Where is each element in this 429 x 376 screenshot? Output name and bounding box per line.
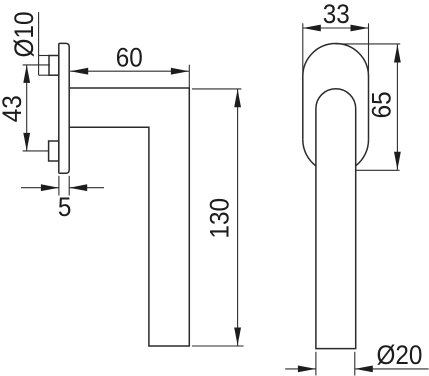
dim 5 line right bbox=[69, 187, 104, 189]
dim 5 arrow left bbox=[41, 184, 59, 191]
dim 43 arrow up bbox=[23, 65, 30, 83]
dim Ø20 arrow right bbox=[355, 366, 373, 373]
dim 33 arrow right bbox=[351, 25, 369, 32]
dim 33 extension right bbox=[368, 23, 370, 76]
dim 33 extension left bbox=[302, 23, 304, 76]
svg-text:43: 43 bbox=[0, 95, 27, 122]
dim 43 arrow down bbox=[23, 133, 30, 151]
svg-text:Ø20: Ø20 bbox=[376, 341, 422, 370]
dim 130 extension top bbox=[192, 88, 241, 90]
handle lever (side view L-shape) bbox=[69, 88, 189, 346]
dim 65 line bbox=[396, 45, 398, 170]
dim 65 arrow down bbox=[394, 152, 401, 170]
dim Ø20 line right bbox=[355, 368, 429, 370]
dim Ø20 arrow left bbox=[298, 366, 316, 373]
rosette oval bottom-right arc bbox=[356, 140, 369, 166]
left view: rosette plate (side) bbox=[59, 43, 69, 173]
dim 60 extension right bbox=[188, 65, 190, 88]
dim 43 line bbox=[26, 65, 28, 151]
dim Ø20 extension right bbox=[354, 352, 356, 376]
right view: rosette oval (front) sides and top arc bbox=[303, 44, 369, 140]
dim 130 arrow up bbox=[234, 89, 241, 107]
svg-text:60: 60 bbox=[116, 43, 143, 72]
dim 60 line bbox=[70, 70, 189, 72]
rosette oval bottom-left arc bbox=[303, 140, 316, 166]
dim 33 arrow left bbox=[303, 25, 321, 32]
svg-text:65: 65 bbox=[367, 91, 396, 118]
dim 65 extension bottom bbox=[356, 169, 400, 171]
dim 43 extension bottom (peg center) bbox=[23, 150, 49, 152]
svg-text:130: 130 bbox=[205, 198, 234, 239]
dim 65 extension top bbox=[336, 43, 401, 45]
dim 130 line bbox=[237, 89, 239, 345]
dim 65 arrow up bbox=[394, 45, 401, 63]
svg-text:Ø10: Ø10 bbox=[10, 12, 39, 58]
dim 130 extension bottom bbox=[192, 345, 244, 347]
bottom screw peg bbox=[49, 141, 59, 161]
dim 60 arrow left bbox=[70, 68, 88, 75]
svg-text:5: 5 bbox=[58, 193, 72, 222]
dim 60 arrow right bbox=[171, 68, 189, 75]
dim Ø10 leader line bbox=[38, 12, 40, 75]
top screw peg bbox=[49, 56, 59, 76]
dim Ø10 tick top bbox=[39, 55, 50, 57]
dim Ø20 extension left bbox=[315, 352, 317, 376]
handle grip (front view U + bar) bbox=[316, 89, 356, 349]
dim 130 arrow down bbox=[234, 328, 241, 346]
dim 5 extension left bbox=[58, 176, 60, 196]
dim Ø10 tick bottom bbox=[39, 74, 50, 76]
dim Ø20 line left bbox=[285, 368, 316, 370]
dim 5 extension right bbox=[68, 176, 70, 196]
dim 5 arrow right bbox=[69, 184, 87, 191]
dim 43 extension top (peg center) bbox=[23, 64, 50, 66]
dim 33 line bbox=[303, 27, 369, 29]
dim 5 line left bbox=[21, 187, 59, 189]
svg-text:33: 33 bbox=[323, 0, 350, 29]
